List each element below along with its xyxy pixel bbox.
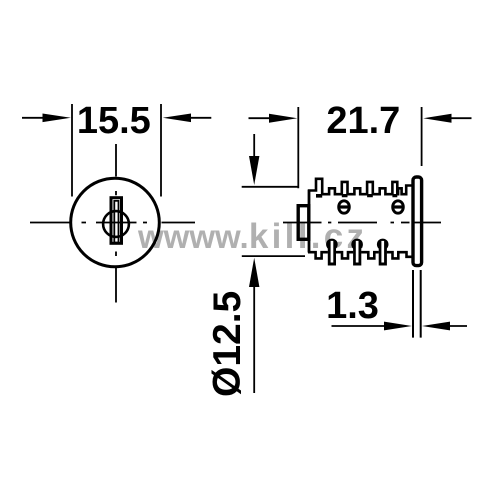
side view body left edge [308,190,311,253]
theta hole symbol 2 [392,201,404,213]
front view circle (cylinder face) [71,178,160,267]
side view top edge profile with pins [308,179,412,194]
dimension 15.5 left arrow [22,117,44,119]
keyhole plug circle [103,211,129,237]
tumbler pin 3 (bottom) [377,239,389,266]
side view centerline (dash-dot) [283,222,441,224]
dimension 21.7 right extension line [421,107,423,166]
diameter 12.5 down arrow [253,134,255,158]
dimension 15.5 left extension line [71,104,73,197]
top pin stubs into body [316,194,397,198]
diameter 12.5 up arrow [249,258,259,287]
horizontal centerline (front view) [30,222,195,224]
face flange rounded rect [413,177,422,266]
theta hole symbol 1 [338,201,350,213]
diameter 12.5 bottom extent line [242,255,305,257]
dimension 21.7 left arrow [249,117,273,119]
dimension 1.3 extension lines [413,270,421,338]
dimension 21.7 right arrow [423,114,451,123]
keyhole inner slot [114,201,118,243]
svg-text:15.5: 15.5 [77,100,151,142]
svg-text:wwww.: wwww. [137,218,249,255]
dimension 21.7 left extension line [297,107,299,188]
side view retaining clip [298,206,309,240]
svg-text:21.7: 21.7 [326,100,400,142]
tumbler pin 2 (bottom) [351,239,363,266]
svg-text:1.3: 1.3 [326,285,379,327]
keyhole outer rectangle [111,198,122,244]
dimension 15.5 right arrow [163,114,191,123]
vertical centerline (front view) [115,144,117,303]
diameter 12.5 top extent line [242,186,299,188]
side view bottom edge profile [308,252,412,258]
dimension 1.3 right arrow [422,322,450,331]
dimension 15.5 right extension line [160,104,162,197]
tumbler pin 1 (bottom) [326,239,338,266]
svg-text:Ø12.5: Ø12.5 [206,291,249,397]
dimension 1.3 left arrow [332,325,387,327]
